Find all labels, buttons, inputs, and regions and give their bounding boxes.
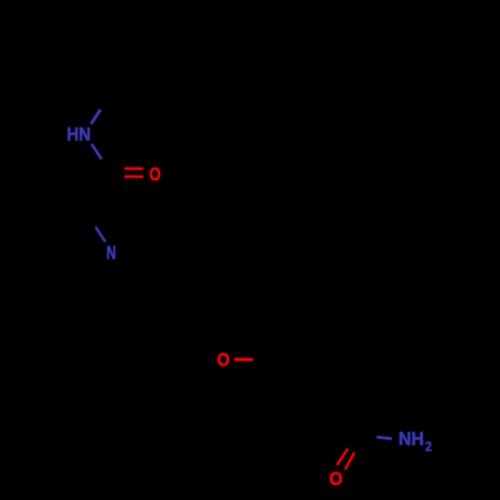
carbon skeleton (black bonds, carbon color) xyxy=(86,41,377,453)
svg-text:N: N xyxy=(106,243,116,263)
bond C5-R1 xyxy=(185,305,230,318)
svg-text:HN: HN xyxy=(67,125,91,145)
double bond C2=O1 upper line (oxygen side) xyxy=(125,167,144,170)
double bond C7=O2 right line (oxygen side) xyxy=(345,453,355,470)
bond C3-N2 (carbon half) xyxy=(86,212,96,227)
double bond C2=O1 lower line (oxygen side) xyxy=(125,175,144,178)
bond C7-N3 (carbon half) xyxy=(361,435,376,437)
svg-text:O: O xyxy=(149,164,161,184)
nitrogen-colored half bonds xyxy=(91,110,392,439)
double bond C7=O2 left line (oxygen side) xyxy=(337,449,348,466)
svg-text:O: O xyxy=(329,469,342,489)
bond ring-O3 (carbon half of ether bond) xyxy=(253,358,272,361)
bond half C7-N3 (nitrogen side) xyxy=(377,437,392,439)
bond half N1-C2 (nitrogen side) xyxy=(92,144,102,159)
ether bond O3-ring (oxygen side) xyxy=(234,358,253,361)
benzene inner aromatic lines xyxy=(300,328,332,329)
bond N1-CH3 (carbon half) xyxy=(101,95,111,110)
bond N2-C4 xyxy=(118,262,143,293)
bond half C3-N2 (nitrogen side) xyxy=(96,227,106,242)
bond C2-C3 xyxy=(86,174,112,212)
cyclohexyl ring at top xyxy=(110,41,198,125)
bond C2=O1 (carbon halves of double bond) xyxy=(112,167,125,170)
bond ring-C7 xyxy=(339,395,361,435)
bond half N1-CH3 (nitrogen side) xyxy=(91,110,101,125)
bond C7=O2 (carbon halves of double bond) xyxy=(348,437,356,449)
oxygen-colored half bonds xyxy=(125,169,355,470)
svg-text:O: O xyxy=(217,350,230,370)
bond C4-C5 xyxy=(143,293,185,305)
bond N1-C2 (carbon half) xyxy=(102,159,112,174)
svg-text:2: 2 xyxy=(425,439,432,454)
svg-text:NH: NH xyxy=(399,429,424,449)
benzene ring xyxy=(272,320,360,397)
